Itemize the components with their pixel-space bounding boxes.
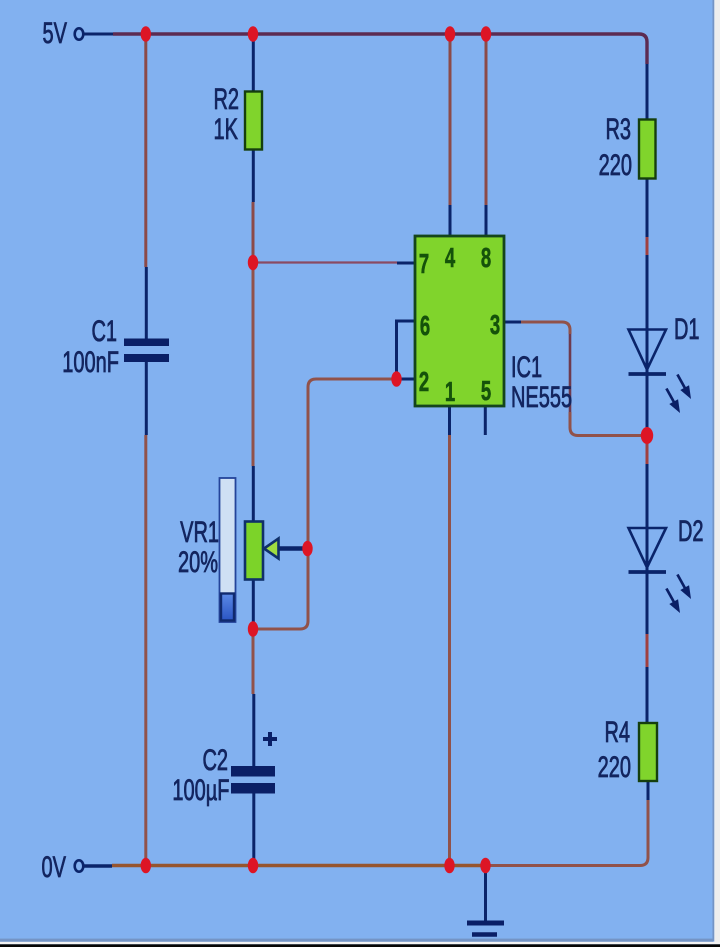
bottom white line: [0, 942, 720, 945]
wire: C1 bottom lead (navy): [145, 361, 148, 435]
wire: pin 2 stub (navy): [398, 378, 415, 381]
wire: pin 2 node to VR1 wiper loop (brown): [256, 379, 392, 629]
wire: left branch (brown upper): [144, 37, 147, 267]
wire: node to VR1 (brown): [252, 267, 255, 466]
junction node at 5V rail / C1 branch: [141, 26, 151, 42]
svg-text:C2: C2: [202, 744, 228, 777]
svg-text:D2: D2: [678, 515, 704, 548]
svg-text:NE555: NE555: [511, 381, 572, 414]
svg-text:2: 2: [419, 366, 429, 397]
0V terminal: [75, 860, 84, 871]
bottom edge dark line: [0, 939, 713, 942]
junction node 0V rail / pin1 branch: [444, 858, 454, 874]
junction node wiper: [302, 541, 312, 557]
wire: VR1 node to C2 (brown): [252, 632, 255, 694]
bottom black bar: [0, 944, 720, 947]
svg-text:220: 220: [598, 751, 631, 784]
svg-text:VR1: VR1: [180, 516, 219, 549]
wire: pin 8 branch (brown): [485, 37, 488, 205]
wire: D2 to R4 (navy): [646, 667, 649, 724]
svg-text:4: 4: [445, 242, 455, 273]
wire: C2 top lead (navy): [252, 694, 255, 767]
wire: D2 cathode lead (navy): [646, 572, 649, 634]
wire: pin 3 vertical run (plum): [569, 334, 572, 412]
svg-text:1K: 1K: [214, 113, 238, 146]
wire: pin 3 stub (navy): [504, 321, 521, 324]
wire: pin 8 stub (navy): [485, 205, 488, 236]
wire: R2 top lead (navy): [252, 37, 255, 92]
svg-text:7: 7: [419, 248, 429, 279]
wire: R3 top lead (navy): [646, 64, 649, 120]
svg-text:6: 6: [420, 310, 430, 341]
resistor R4: [639, 723, 657, 781]
svg-text:100µF: 100µF: [172, 774, 229, 807]
wire: pin 6 to pin 2 link (navy): [397, 321, 416, 378]
junction node R2/pin7: [248, 255, 258, 271]
wire: pin 5 stub (navy): [484, 406, 487, 435]
wire: pin 3 wire lower elbow to LED node (brown): [570, 412, 642, 436]
VR1 wiper arrow: [264, 539, 279, 559]
wire: pin 4 branch (brown): [449, 37, 452, 205]
wire: red segment below LED node: [646, 443, 649, 464]
svg-text:C1: C1: [91, 315, 117, 348]
svg-text:R3: R3: [605, 113, 631, 146]
wire: red segment above D1: [646, 237, 649, 255]
svg-text:20%: 20%: [178, 546, 218, 579]
C2 plus sign: [263, 732, 277, 746]
svg-text:220: 220: [599, 149, 632, 182]
wire: +5V top rail: [113, 34, 647, 64]
wire: D1 cathode to node (navy): [646, 374, 649, 430]
junction node pin2/pin6: [391, 371, 401, 387]
junction node 0V rail / ground: [480, 858, 490, 874]
wire: wiper to loop (navy thick): [279, 546, 306, 551]
junction node 0V rail / C2 branch: [248, 858, 258, 874]
wire: pin 4 stub (navy): [449, 205, 452, 236]
junction node at 5V rail / pin8 branch: [481, 26, 491, 42]
svg-text:D1: D1: [674, 313, 700, 346]
junction node at 5V rail / pin4 branch: [445, 26, 455, 42]
5V terminal: [75, 28, 84, 39]
wire: ground lead (navy): [484, 867, 487, 921]
wire: C2 bottom lead (navy): [252, 793, 255, 863]
VR1 slider track: [220, 478, 236, 622]
svg-text:100nF: 100nF: [62, 346, 119, 379]
wire: VR1 top lead (navy): [252, 466, 255, 522]
capacitor C1: [124, 339, 169, 363]
wire: VR1 bottom lead (navy): [252, 579, 255, 627]
svg-text:5: 5: [481, 375, 491, 406]
wire: node to D2 (navy): [646, 464, 649, 572]
wire: D1 anode lead (navy): [646, 255, 649, 374]
wire: red segment above R4: [646, 634, 649, 667]
wire: pin 1 to 0V rail (brown): [448, 435, 451, 863]
svg-text:IC1: IC1: [511, 351, 542, 384]
right margin strip: [713, 0, 715, 941]
wire: 5V terminal lead (navy): [83, 33, 113, 36]
svg-text:R2: R2: [213, 83, 239, 116]
wire: R2 to node junction (brown): [252, 202, 255, 262]
potentiometer VR1 body: [245, 522, 263, 580]
wire: 0V bottom rail (brown): [112, 864, 486, 867]
wire: pin 7 stub (navy): [397, 262, 415, 265]
resistor R2: [245, 92, 262, 150]
ground: [467, 923, 504, 935]
junction node at 5V rail / R2 branch: [248, 26, 258, 42]
wire: R4 bottom lead (navy): [647, 780, 650, 800]
wire: R2 bottom lead (navy): [252, 149, 255, 202]
junction node LED chain / pin3: [641, 427, 653, 444]
junction node VR1 bottom: [248, 621, 258, 637]
wire: C1 top lead (navy): [145, 267, 148, 339]
svg-text:1: 1: [445, 376, 455, 407]
svg-text:8: 8: [481, 242, 491, 273]
wire: R3 to D1 (navy): [646, 178, 649, 237]
op IC1 NE555 body: [415, 236, 504, 406]
wire: pin 3 to LED node (brown): [521, 322, 570, 334]
wire: node to IC pin 7 (maroon): [253, 261, 397, 263]
wire: R4 to 0V rail (brown): [488, 800, 648, 866]
svg-text:3: 3: [490, 309, 500, 340]
svg-text:R4: R4: [604, 716, 630, 749]
junction node 0V rail / C1 branch: [141, 858, 151, 874]
VR1 slider handle: [221, 594, 234, 621]
capacitor C2 (electrolytic): [231, 766, 275, 794]
wire: left branch (brown lower): [144, 435, 147, 863]
LED D2: [629, 528, 696, 615]
wire: 0V terminal lead (navy): [84, 864, 113, 867]
svg-text:5V: 5V: [43, 17, 67, 50]
resistor R3: [639, 120, 656, 179]
svg-text:0V: 0V: [42, 851, 66, 884]
LED D1: [629, 330, 696, 416]
wire: pin 1 stub (navy): [448, 406, 451, 435]
